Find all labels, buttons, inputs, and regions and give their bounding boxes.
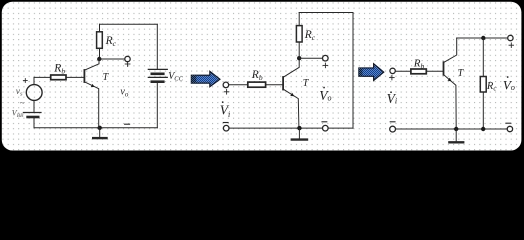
wire: bottom rail (left circuit) [34, 127, 157, 129]
resistor Rb (left circuit) [51, 75, 66, 80]
label: plus at Vo terminal (right) [509, 43, 514, 48]
terminal: vo output (left) [125, 56, 130, 61]
terminal: Vo output (middle) [323, 55, 329, 61]
terminal: Vo output top (right) [508, 35, 513, 40]
label: plus at Vi input (right) [390, 75, 395, 80]
terminal: bottom right (right circuit) [507, 126, 512, 131]
transistor T (left): emitter arrow [91, 84, 95, 87]
transistor T (middle): emitter arrow [290, 93, 294, 97]
wire: Rc bottom lead (right) [482, 92, 484, 129]
wire: bottom rail (right) [393, 128, 510, 130]
node: Rc bottom junction (right) [481, 127, 485, 131]
wire: node to Rc (middle) [298, 42, 300, 58]
wire: Rc to top rail (middle) [298, 13, 300, 26]
label: minus near vo (left) [125, 123, 130, 125]
wire: Rb to base (middle) [266, 84, 284, 86]
wire: Rb to base [66, 76, 84, 78]
resistor Rc (right) [480, 77, 486, 93]
wire: top rail (right) [457, 37, 508, 39]
wire: base feed (left) [34, 76, 51, 78]
page [2, 2, 522, 151]
ground (right) [454, 127, 458, 131]
svg-text:~: ~ [20, 98, 25, 108]
wire: Rc top lead (right) [482, 38, 484, 77]
wire: source bottom lead [33, 100, 35, 112]
label Vo (middle) [323, 87, 325, 89]
wire: output lead to terminal [99, 58, 124, 60]
label Vo (right) [507, 76, 509, 78]
wire: bottom rail (middle) [226, 127, 353, 129]
wire: collector to output terminal (middle) [299, 57, 322, 59]
label: minus at bottom left (right circuit) [390, 121, 395, 123]
transistor T (left): emitter [84, 82, 98, 128]
battery VBB [23, 112, 41, 114]
transistor T (right): collector [444, 38, 457, 62]
frame background [0, 0, 524, 157]
transistor T (middle): base bar [282, 77, 284, 90]
wire: Rc top lead [99, 24, 101, 32]
arrow 2 (middle to right) [359, 64, 384, 81]
transistor T (middle): emitter [283, 89, 299, 128]
transistor T (right): emitter arrow [448, 78, 452, 82]
resistor Rc (middle) [296, 26, 302, 42]
label: plus at source [23, 79, 27, 83]
transistor T (left): base bar [83, 70, 85, 82]
terminal: Vi input (right) [390, 68, 395, 73]
label Vi (middle) [222, 101, 224, 103]
label: minus at bottom input (middle) [223, 122, 228, 124]
label: plus at Vi input (middle) [224, 90, 229, 95]
wire: right side (middle) [352, 13, 354, 129]
label: plus at Vo (middle) [323, 63, 328, 68]
label: plus at vo terminal [125, 62, 130, 67]
transistor T (left): collector [84, 59, 99, 70]
resistor Rb (middle) [248, 82, 266, 87]
transistor T (right): emitter [444, 75, 457, 129]
arrow 1 (left to middle) [191, 71, 220, 87]
wire: top rail (middle) [299, 12, 353, 14]
wire: Rb to base (right) [426, 70, 443, 72]
wire: top rail [100, 23, 158, 25]
wire: Rc bottom lead to collector node [99, 48, 101, 59]
node: top rail junction (right) [481, 36, 485, 40]
wire: input to Rb (middle) [229, 84, 248, 86]
wire: source top lead [33, 77, 35, 84]
source vs (sine source circle) [26, 85, 42, 101]
label: minus at bottom output (middle) [322, 121, 327, 123]
node: collector junction (left) [97, 57, 101, 61]
label Vi (right) [390, 92, 392, 94]
transistor T (middle): collector [283, 58, 299, 77]
wire: input to Rb (right) [395, 70, 411, 72]
terminal: bottom left (right circuit) [390, 126, 396, 132]
terminal: bottom input (middle) [223, 125, 229, 131]
battery VCC [156, 24, 158, 69]
resistor Rb (right) [411, 69, 426, 74]
node: collector junction (middle) [297, 56, 301, 60]
ground (middle) [297, 126, 301, 130]
ground (left circuit) [98, 126, 102, 130]
terminal: Vi input (middle) [223, 82, 229, 88]
transistor T (right): base bar [443, 62, 445, 75]
label: minus at bottom right (right circuit) [506, 122, 511, 124]
resistor Rc (left circuit) [97, 32, 103, 49]
terminal: bottom output (middle) [323, 125, 329, 131]
